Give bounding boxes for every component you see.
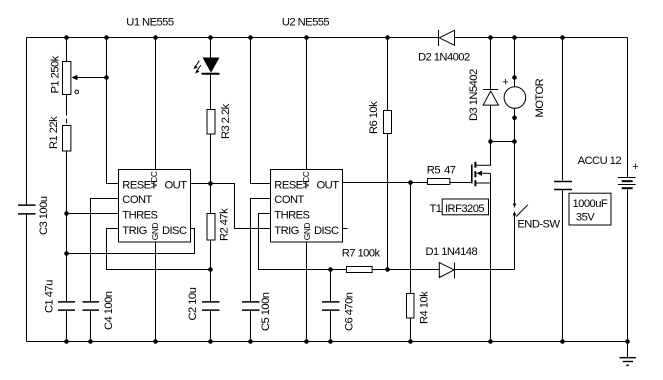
svg-text:DISC: DISC (162, 225, 187, 237)
potentiometer P1 (63, 62, 71, 95)
wire left rail (26, 38, 28, 205)
wire top rail left of D2 (27, 37, 439, 39)
svg-text:THRES: THRES (122, 209, 157, 221)
wire LED/R3/R2/C2 chain (210, 38, 212, 58)
resistor R2 (207, 214, 215, 241)
wire U1 vcc (155, 38, 157, 170)
capacitor C2 plates (202, 302, 220, 310)
svg-text:U1 NE555: U1 NE555 (126, 17, 174, 29)
wire U1 cont to C4 (91, 199, 119, 302)
svg-text:TRIG: TRIG (122, 225, 147, 237)
diode D3 1N5402 (483, 90, 499, 106)
svg-text:U2 NE555: U2 NE555 (282, 17, 330, 29)
wire R7 to D1 (373, 269, 440, 271)
svg-text:C5 100n: C5 100n (260, 292, 272, 331)
wire end-switch lower (514, 215, 516, 270)
svg-text:THRES: THRES (274, 209, 309, 221)
wire top rail right of D2 (455, 37, 628, 39)
resistor R4 (407, 294, 415, 319)
svg-text:P1 250k: P1 250k (50, 55, 62, 93)
svg-text:D2 1N4002: D2 1N4002 (418, 52, 470, 64)
wire motor to drain link (491, 141, 515, 143)
wire battery chain (627, 38, 629, 178)
resistor R6 (384, 111, 392, 134)
svg-text:END-SW: END-SW (517, 219, 560, 231)
svg-text:GND: GND (150, 222, 160, 240)
svg-text:C4 100n: C4 100n (103, 291, 115, 330)
resistor R3 (207, 110, 215, 135)
svg-text:R5 47: R5 47 (427, 165, 456, 177)
svg-text:T1: T1 (430, 203, 442, 215)
wire U1 thres (67, 213, 119, 215)
battery ACCU plates (618, 178, 636, 189)
svg-text:DISC: DISC (314, 225, 339, 237)
capacitor C3 plates (18, 205, 36, 214)
wire D1 to end-switch (455, 269, 515, 271)
svg-text:D1 1N4148: D1 1N4148 (426, 246, 478, 258)
wire U1 gnd (155, 242, 157, 342)
ground symbol (620, 358, 637, 366)
svg-text:C1 47u: C1 47u (44, 280, 56, 313)
resistor R7 (347, 267, 373, 273)
svg-text:ACCU 12: ACCU 12 (578, 155, 622, 167)
svg-text:IRF3205: IRF3205 (445, 203, 484, 215)
wire C6 chain (330, 270, 332, 302)
svg-text:OUT: OUT (165, 179, 188, 191)
motor M symbol (504, 87, 526, 109)
wire 1000uF chain (562, 38, 564, 181)
resistor R5 (428, 179, 450, 185)
svg-text:C3 100u: C3 100u (38, 196, 50, 235)
svg-text:VCC: VCC (149, 171, 159, 188)
svg-text:R4 10k: R4 10k (419, 291, 431, 324)
svg-text:GND: GND (302, 222, 312, 240)
wire U2 gnd (306, 242, 308, 342)
svg-text:+: + (502, 77, 508, 89)
svg-text:+: + (632, 161, 638, 173)
node dots bottom rail (64, 339, 630, 344)
svg-text:CONT: CONT (122, 194, 152, 206)
end switch END-SW (513, 204, 528, 217)
svg-text:R7 100k: R7 100k (342, 248, 381, 260)
wire U2 vcc (306, 38, 308, 170)
capacitor C1 plates (58, 302, 75, 310)
diode D2 1N4002 (439, 30, 455, 46)
svg-text:C2 10u: C2 10u (187, 287, 199, 320)
wire R6 chain (387, 38, 389, 111)
label 1000uF 35V boxed (569, 193, 611, 225)
transistor T1 IRF3205 mosfet (472, 142, 491, 342)
capacitor C6 plates (322, 302, 340, 310)
svg-text:R6 10k: R6 10k (368, 101, 380, 134)
svg-text:1000uF: 1000uF (573, 198, 608, 210)
wire U2 reset chain (251, 38, 271, 184)
wire U2 out to gate (343, 182, 428, 184)
wire U2 disc stub (343, 228, 348, 230)
wire U1 out to U2 trig (191, 184, 271, 229)
resistor R1 (63, 126, 71, 152)
node dots middle (64, 75, 517, 272)
wire U2 cont to C5 (251, 199, 271, 302)
svg-text:35V: 35V (576, 212, 595, 224)
svg-text:R3 2.2k: R3 2.2k (220, 103, 232, 139)
wire bottom rail (27, 341, 628, 343)
LED D (light emitting diode) (194, 58, 220, 74)
svg-text:VCC: VCC (301, 171, 311, 188)
capacitor C5 plates (242, 302, 260, 310)
svg-text:R2 47k: R2 47k (219, 208, 231, 241)
wire R4 chain (410, 183, 412, 294)
wire U1 trig (107, 229, 211, 270)
capacitor C4 plates (83, 302, 100, 310)
label IRF3205 boxed (442, 199, 488, 215)
svg-text:R1 22k: R1 22k (48, 116, 60, 149)
node dots top rail (64, 35, 565, 40)
diode D1 1N4148 (439, 263, 454, 279)
P1 wiper arrow (72, 75, 78, 80)
wire P1 wiper (76, 77, 107, 79)
svg-text:TRIG: TRIG (274, 225, 299, 237)
svg-text:D3 1N5402: D3 1N5402 (468, 69, 480, 121)
svg-text:C6 470n: C6 470n (344, 292, 356, 331)
wire U1 disc return (67, 229, 195, 254)
wire motor chain (514, 38, 516, 87)
IC U1 NE555 box (119, 170, 191, 243)
wire P1/R1 chain (66, 38, 68, 62)
svg-text:CONT: CONT (274, 194, 304, 206)
wire U2 thres to R7 (259, 214, 347, 270)
wire end-switch upper (514, 142, 516, 205)
P1 terminal circle (75, 90, 79, 94)
capacitor 1000uF plates (554, 182, 572, 190)
wire U1 reset chain (107, 38, 119, 184)
IC U2 NE555 box (271, 170, 343, 243)
wire D3 chain (490, 38, 492, 90)
svg-text:MOTOR: MOTOR (534, 78, 546, 117)
svg-text:OUT: OUT (317, 179, 340, 191)
